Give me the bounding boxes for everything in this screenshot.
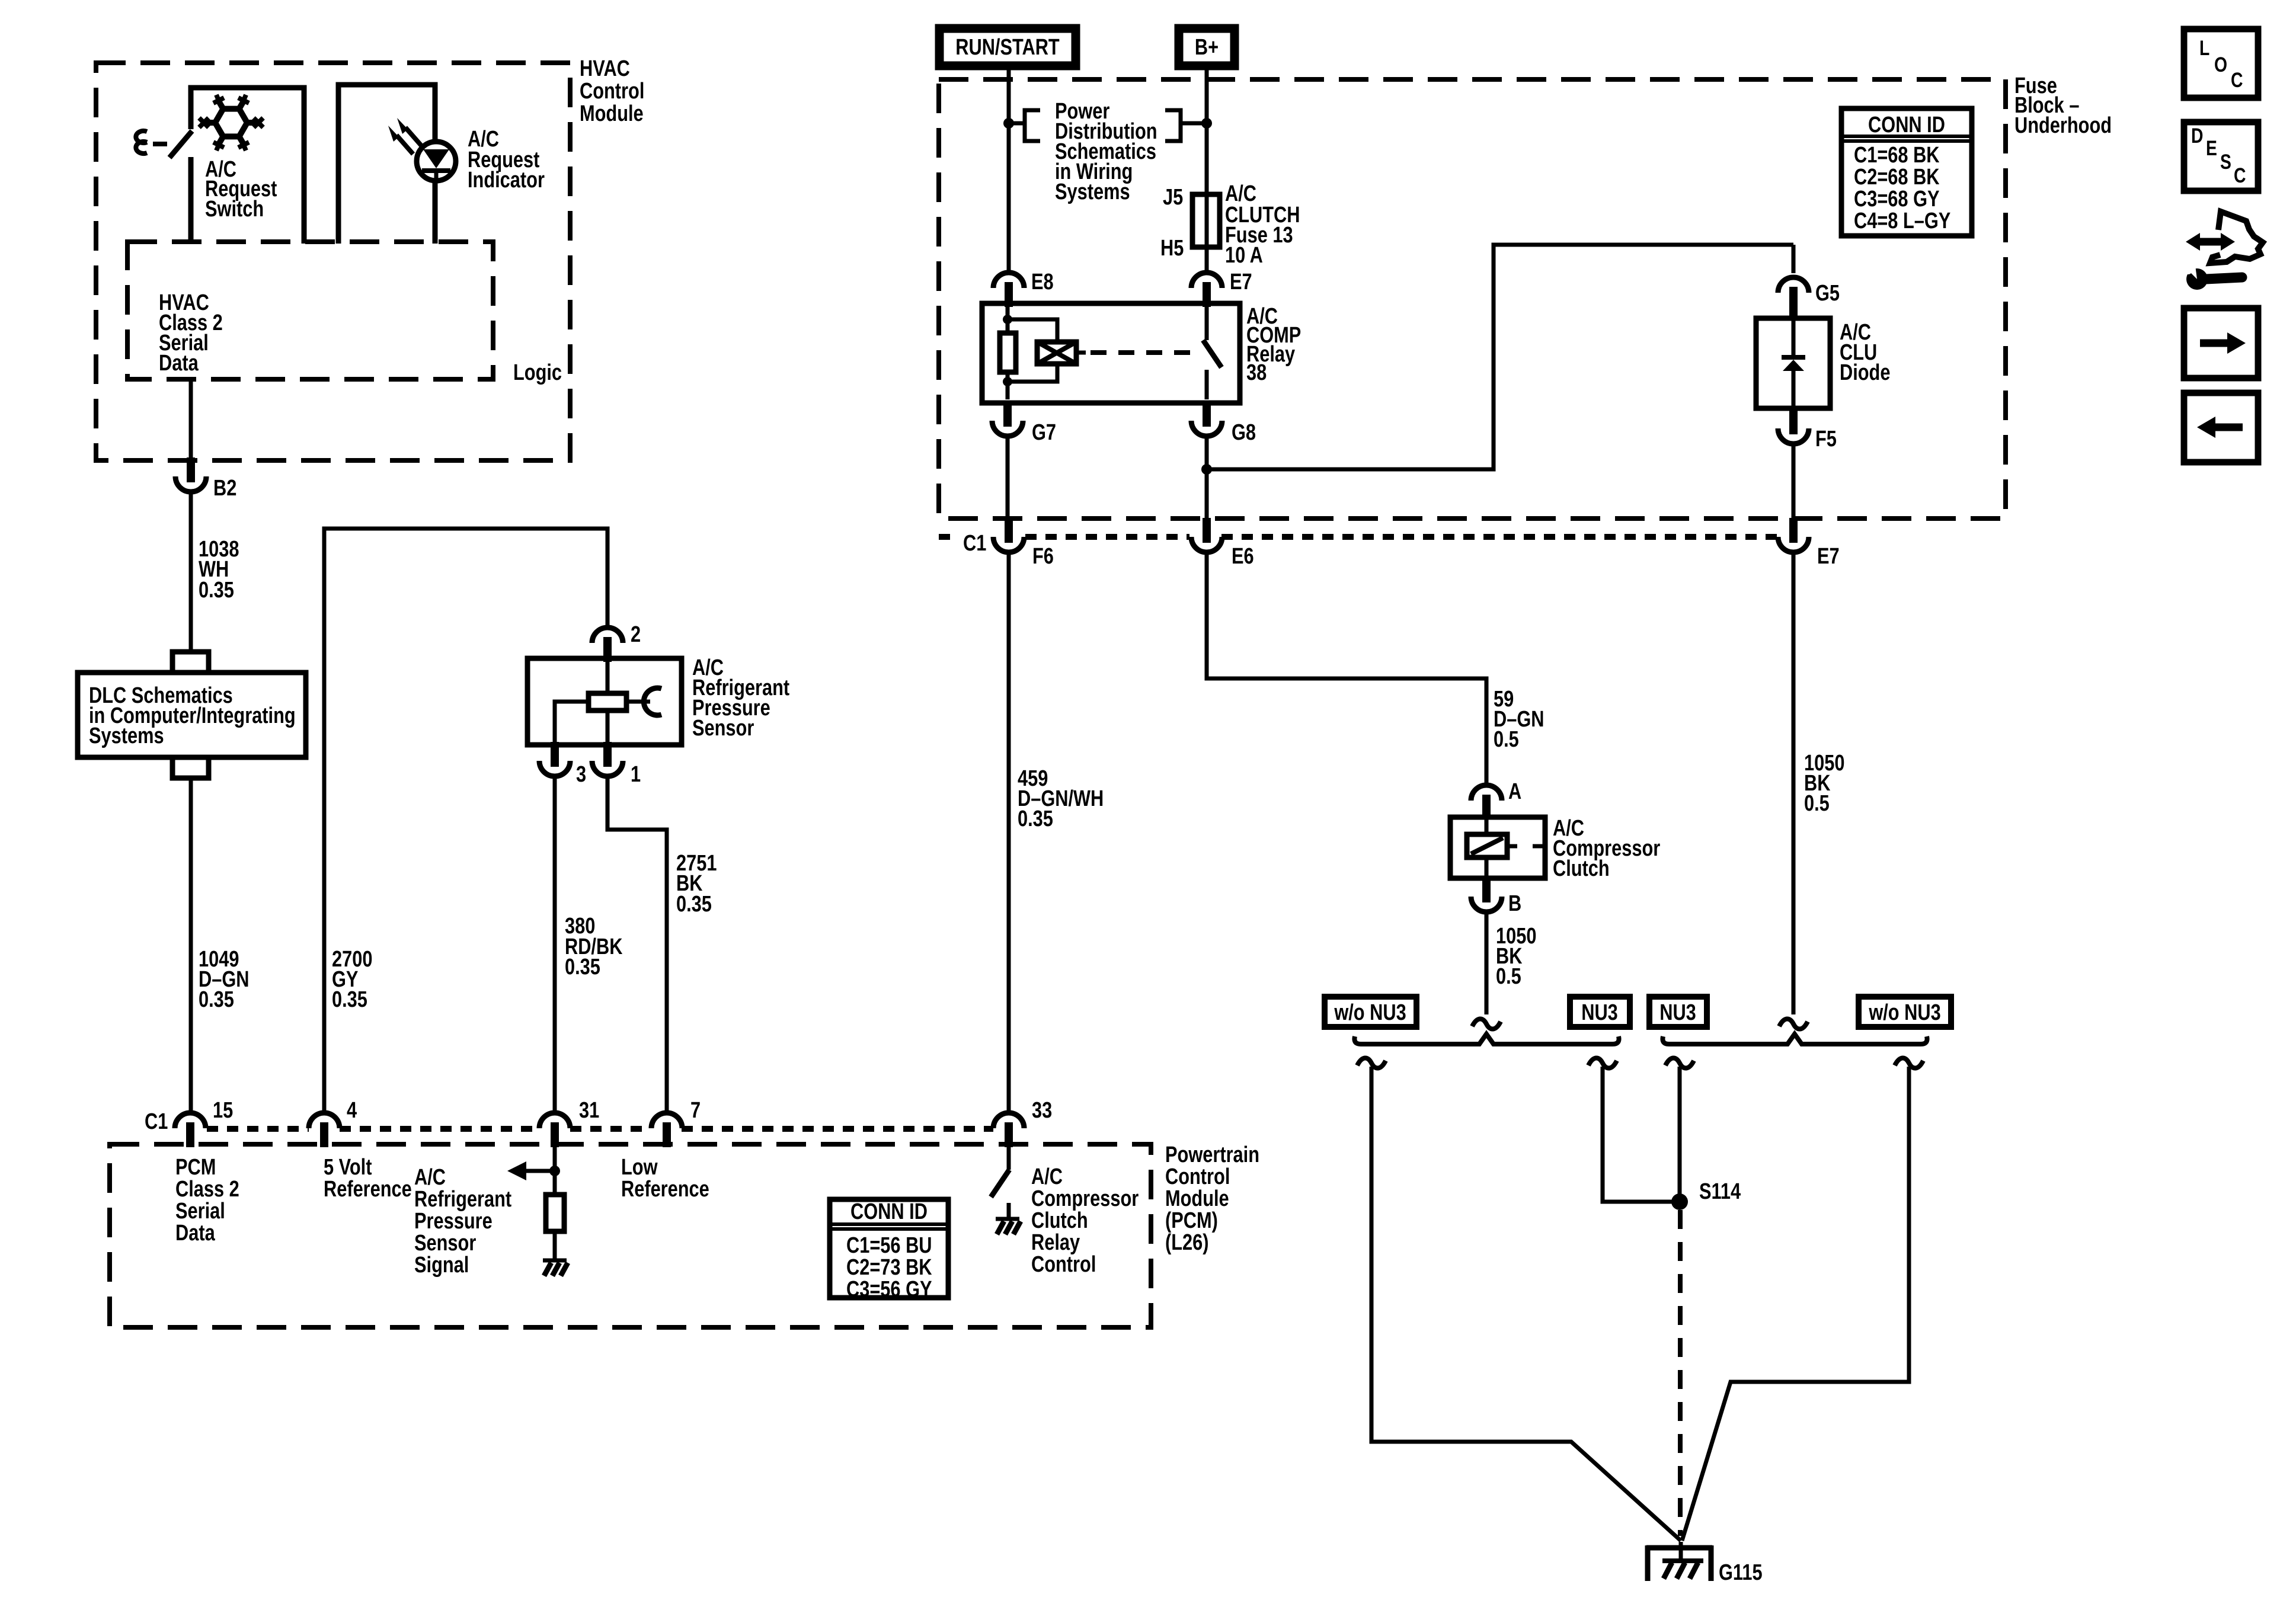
- terminal box RUN/START: [939, 28, 1076, 66]
- wire w/o NU3 left branch: [1371, 1067, 1681, 1541]
- PCM C1 dotted connector row: [207, 1126, 993, 1132]
- icon box arrow left: [2184, 393, 2258, 462]
- svg-text:C4=8 L–GY: C4=8 L–GY: [1854, 209, 1950, 233]
- connector G5: [1778, 277, 1809, 312]
- label A/C Refrigerant Pressure Sensor: [692, 655, 790, 741]
- splice brace (right): [1662, 1034, 1927, 1044]
- svg-text:Signal: Signal: [414, 1253, 469, 1278]
- svg-text:B: B: [1508, 891, 1521, 916]
- svg-text:H5: H5: [1160, 236, 1184, 261]
- switch S (A/C request switch contact and blade): [136, 131, 147, 153]
- connector E7 (bottom row): [1778, 518, 1809, 552]
- relay switch: [1205, 307, 1209, 340]
- connector 1: [592, 742, 623, 776]
- svg-text:10 A: 10 A: [1225, 243, 1263, 268]
- label A/C Compressor Clutch: [1553, 816, 1660, 881]
- option box w/o NU3 (right): [1859, 997, 1951, 1027]
- label 2700 GY 0.35: [332, 947, 372, 1012]
- fuse block C1 dotted connector row: [939, 534, 1779, 540]
- relay coil circuit: [1006, 307, 1010, 399]
- svg-text:L: L: [2199, 36, 2209, 60]
- wire B2 to DLC bracket (1038 WH): [189, 492, 193, 649]
- svg-text:C1: C1: [145, 1109, 168, 1134]
- splice S114: [1671, 1193, 1688, 1210]
- label 59 D-GN 0.5: [1494, 687, 1544, 752]
- node on B+ wire: [1201, 118, 1212, 129]
- dashed wire S114 to G115: [1678, 1210, 1683, 1536]
- label A/C Refrigerant Pressure Sensor Signal: [414, 1165, 512, 1278]
- svg-text:C1=68 BK: C1=68 BK: [1854, 143, 1940, 168]
- svg-text:CONN ID: CONN ID: [1868, 113, 1945, 137]
- svg-text:C1=56 BU: C1=56 BU: [846, 1233, 932, 1258]
- svg-text:HVAC: HVAC: [580, 56, 630, 81]
- svg-text:A: A: [1508, 779, 1521, 804]
- connector 31: [539, 1113, 570, 1147]
- svg-text:S114: S114: [1699, 1179, 1741, 1204]
- svg-text:Switch: Switch: [205, 197, 264, 222]
- svg-text:C1: C1: [963, 531, 986, 556]
- ground (relay control): [996, 1219, 1021, 1234]
- connector G8: [1191, 402, 1222, 436]
- svg-text:C: C: [2231, 68, 2243, 92]
- connector A: [1471, 785, 1502, 820]
- svg-text:F6: F6: [1032, 544, 1054, 569]
- relay dashed actuator link: [1091, 350, 1202, 355]
- svg-text:F5: F5: [1815, 427, 1837, 452]
- icon vehicle with double arrow: [2186, 212, 2263, 263]
- label Power Distribution Schematics in Wiring Systems: [1055, 99, 1157, 204]
- svg-text:0.35: 0.35: [565, 955, 600, 980]
- internal resistor: [546, 1195, 564, 1231]
- connector 2 (sensor pin 2): [592, 628, 623, 662]
- svg-text:A/C: A/C: [414, 1165, 446, 1190]
- wire G8 down with junction to E6: [1205, 436, 1209, 518]
- svg-text:(PCM): (PCM): [1165, 1208, 1218, 1233]
- icon box DESC: [2184, 122, 2258, 191]
- label A/C COMP Relay 38: [1246, 304, 1301, 385]
- label 1049 D-GN 0.35: [199, 947, 249, 1012]
- A/C CLU Diode box: [1756, 318, 1830, 408]
- svg-text:(L26): (L26): [1165, 1230, 1209, 1255]
- connector E7: [1191, 273, 1222, 307]
- svg-text:Control: Control: [580, 79, 644, 104]
- connector E6: [1191, 518, 1222, 552]
- svg-text:Clutch: Clutch: [1553, 856, 1610, 881]
- connector B: [1471, 878, 1502, 912]
- power distribution right bracket: [1165, 110, 1207, 141]
- svg-text:Control: Control: [1031, 1252, 1096, 1277]
- svg-text:Sensor: Sensor: [414, 1231, 476, 1256]
- svg-text:0.35: 0.35: [676, 892, 712, 917]
- DLC top bracket: [172, 652, 209, 673]
- wire E6 to compressor clutch A (59 D-GN): [1207, 552, 1486, 785]
- connector 15: [175, 1113, 206, 1147]
- CONN ID table (PCM): [830, 1199, 948, 1302]
- svg-text:E7: E7: [1817, 544, 1840, 569]
- svg-text:S: S: [2220, 150, 2231, 174]
- DLC Schematics box: [78, 673, 306, 757]
- wire DLC to PCM pin 15 (1049 D-GN): [189, 778, 193, 1112]
- svg-text:0.5: 0.5: [1494, 727, 1519, 752]
- svg-text:31: 31: [579, 1098, 599, 1123]
- svg-text:C3=56 GY: C3=56 GY: [846, 1277, 932, 1302]
- svg-text:Control: Control: [1165, 1164, 1230, 1189]
- wire logic box to B2: [189, 379, 193, 457]
- svg-text:C2=68 BK: C2=68 BK: [1854, 165, 1940, 190]
- squiggle drop NU3 left: [1588, 1058, 1617, 1068]
- wire break squiggle (left wire): [1472, 1019, 1501, 1029]
- Fuse Block - Underhood dashed box: [939, 79, 2006, 518]
- sensor internal right lead and pressure port: [626, 700, 650, 704]
- connector F5: [1778, 409, 1809, 444]
- svg-text:0.35: 0.35: [199, 578, 234, 603]
- label Powertrain Control Module (PCM) (L26): [1165, 1142, 1259, 1255]
- pin31 internal wire and node: [553, 1147, 557, 1195]
- svg-text:CONN ID: CONN ID: [850, 1199, 928, 1224]
- label HVAC Control Module: [580, 56, 644, 126]
- svg-text:0.5: 0.5: [1804, 791, 1830, 816]
- HVAC Control Module dashed box: [96, 63, 570, 460]
- wire 2700 GY horizontal run: [324, 529, 607, 1112]
- snowflake icon: [199, 95, 263, 151]
- label Fuse Block - Underhood: [2014, 73, 2112, 138]
- svg-text:Logic: Logic: [513, 360, 562, 385]
- ground (internal PCM): [543, 1260, 568, 1276]
- squiggle drop w/o NU3 left: [1357, 1058, 1386, 1068]
- connector 4: [309, 1113, 340, 1147]
- A/C Request Switch box: [191, 88, 304, 244]
- power distribution left bracket: [1009, 110, 1040, 141]
- svg-text:3: 3: [576, 762, 586, 787]
- svg-text:Clutch: Clutch: [1031, 1208, 1088, 1233]
- svg-text:E: E: [2206, 136, 2217, 160]
- label A/C Compressor Clutch Relay Control: [1031, 1164, 1139, 1277]
- svg-text:w/o NU3: w/o NU3: [1334, 1000, 1406, 1025]
- svg-text:B2: B2: [213, 476, 236, 501]
- label A/C CLU Diode: [1840, 320, 1890, 385]
- connector 7: [651, 1113, 682, 1147]
- wire B+ down to fuse: [1205, 66, 1209, 196]
- icon box arrow right: [2184, 308, 2258, 378]
- svg-text:Underhood: Underhood: [2014, 113, 2112, 138]
- option box NU3 (right): [1649, 997, 1707, 1027]
- label 1050 BK 0.5 (left): [1496, 924, 1536, 989]
- diode symbol: [1792, 321, 1796, 406]
- svg-text:RUN/START: RUN/START: [955, 35, 1059, 60]
- svg-text:Refrigerant: Refrigerant: [414, 1187, 512, 1212]
- connector G7: [992, 402, 1023, 436]
- wire w/o NU3 right branch: [1682, 1067, 1909, 1541]
- svg-text:C: C: [2234, 164, 2246, 187]
- connector 33: [993, 1113, 1024, 1147]
- connector B2: [175, 457, 206, 492]
- wire 380 RD/BK pin3 to PCM 31: [553, 776, 557, 1112]
- svg-text:Low: Low: [621, 1155, 658, 1180]
- svg-text:0.5: 0.5: [1496, 964, 1521, 989]
- svg-text:Compressor: Compressor: [1031, 1186, 1139, 1211]
- option box w/o NU3 (left): [1325, 997, 1416, 1027]
- svg-text:33: 33: [1032, 1098, 1052, 1123]
- svg-text:C2=73 BK: C2=73 BK: [846, 1255, 932, 1280]
- svg-text:G5: G5: [1815, 281, 1840, 306]
- svg-text:Reference: Reference: [621, 1177, 709, 1202]
- svg-text:Module: Module: [580, 101, 644, 126]
- wire NU3 right branch to S114: [1678, 1067, 1682, 1202]
- svg-text:Data: Data: [159, 351, 199, 376]
- wire junction to A/C CLU diode branch: [1207, 245, 1793, 469]
- svg-text:15: 15: [213, 1098, 233, 1123]
- connector 3: [539, 742, 570, 776]
- terminal box B+: [1179, 28, 1235, 66]
- svg-text:Serial: Serial: [175, 1199, 225, 1224]
- LED A/C request indicator: [388, 118, 456, 181]
- label 1038 WH 0.35: [199, 537, 239, 603]
- svg-text:Systems: Systems: [89, 724, 164, 748]
- relay coil loop and solenoid: [1008, 319, 1057, 382]
- wire down to G5: [1792, 245, 1796, 273]
- HVAC Class 2 Serial Data logic dashed box: [127, 242, 493, 379]
- wire RUN/START down to E8: [1007, 66, 1011, 271]
- CONN ID table (fuse block): [1841, 108, 1972, 236]
- label DLC Schematics in Computer/Integrating Systems: [89, 683, 296, 748]
- sensor internal left lead to pin 3: [555, 702, 589, 745]
- svg-text:Relay: Relay: [1031, 1230, 1080, 1255]
- wire break squiggle (right wire): [1779, 1019, 1808, 1029]
- svg-text:0.35: 0.35: [332, 987, 367, 1012]
- icon wrench: [2181, 261, 2242, 290]
- svg-text:G8: G8: [1232, 420, 1256, 445]
- svg-text:4: 4: [347, 1098, 357, 1123]
- squiggle drop NU3 right: [1665, 1058, 1694, 1068]
- wire G7 to F6: [1006, 436, 1010, 518]
- signal arrow (A/C refrigerant pressure sensor signal): [525, 1169, 555, 1173]
- svg-text:B+: B+: [1195, 35, 1219, 60]
- label 5 Volt Reference: [324, 1155, 412, 1202]
- svg-text:2: 2: [631, 622, 641, 647]
- squiggle drop w/o NU3 right: [1895, 1058, 1923, 1068]
- svg-text:Pressure: Pressure: [414, 1209, 493, 1234]
- label A/C CLUTCH Fuse 13 10 A: [1225, 181, 1300, 268]
- svg-text:Class 2: Class 2: [175, 1177, 239, 1202]
- svg-text:1: 1: [631, 762, 641, 787]
- solenoid bowtie: [1037, 342, 1076, 364]
- label 459 D-GN/WH 0.35: [1018, 766, 1104, 831]
- svg-text:PCM: PCM: [175, 1155, 216, 1180]
- svg-text:NU3: NU3: [1581, 1000, 1618, 1025]
- svg-text:Module: Module: [1165, 1186, 1229, 1211]
- clutch coil: [1485, 820, 1489, 876]
- svg-text:J5: J5: [1163, 185, 1183, 210]
- wire F6 to PCM 33 (459 D-GN/WH): [1007, 552, 1011, 1112]
- A/C Refrigerant Pressure Sensor box: [527, 658, 682, 745]
- svg-text:Indicator: Indicator: [468, 168, 545, 193]
- svg-text:C3=68 GY: C3=68 GY: [1854, 187, 1940, 212]
- label A/C Request Indicator: [468, 127, 545, 193]
- sensor internal resistor: [606, 658, 610, 693]
- svg-text:G115: G115: [1719, 1560, 1763, 1585]
- svg-text:38: 38: [1246, 360, 1267, 385]
- svg-text:A/C: A/C: [1031, 1164, 1063, 1189]
- svg-text:D: D: [2191, 124, 2203, 148]
- svg-text:O: O: [2214, 53, 2227, 76]
- svg-text:Diode: Diode: [1840, 360, 1890, 385]
- A/C Compressor Clutch box: [1450, 817, 1545, 878]
- svg-text:Sensor: Sensor: [692, 716, 754, 741]
- svg-text:5 Volt: 5 Volt: [324, 1155, 372, 1180]
- svg-text:Powertrain: Powertrain: [1165, 1142, 1259, 1167]
- wire NU3 left branch to S114: [1603, 1067, 1680, 1202]
- svg-text:G7: G7: [1032, 420, 1056, 445]
- splice brace (left): [1354, 1034, 1619, 1044]
- fuse 13 A/C CLUTCH: [1192, 194, 1220, 247]
- svg-text:7: 7: [690, 1098, 701, 1123]
- svg-text:NU3: NU3: [1659, 1000, 1696, 1025]
- svg-text:Data: Data: [175, 1221, 215, 1246]
- DLC bottom bracket: [172, 757, 209, 778]
- connector E8: [993, 273, 1024, 307]
- label PCM Class 2 Serial Data: [175, 1155, 239, 1246]
- A/C Request Indicator box: [338, 85, 435, 244]
- option box NU3 (left): [1570, 997, 1630, 1027]
- label 1050 BK 0.5 (right): [1804, 751, 1844, 816]
- label 2751 BK 0.35: [676, 851, 717, 917]
- svg-text:E7: E7: [1230, 270, 1252, 295]
- svg-text:w/o NU3: w/o NU3: [1868, 1000, 1940, 1025]
- label Low Reference: [621, 1155, 709, 1202]
- wire E7 down (1050 BK right): [1792, 552, 1796, 1014]
- node on RUN/START wire: [1003, 118, 1014, 129]
- label 380 RD/BK 0.35: [565, 914, 622, 980]
- PCM dashed box: [110, 1144, 1151, 1327]
- pin33 internal switch (A/C compressor clutch relay control): [1007, 1147, 1011, 1170]
- connector F6: [993, 518, 1024, 552]
- wire 2751 BK pin1 to PCM 7: [607, 776, 667, 1112]
- svg-text:0.35: 0.35: [199, 987, 234, 1012]
- clutch mechanical link: [1507, 844, 1545, 849]
- label A/C Request Switch: [205, 157, 277, 222]
- svg-text:E8: E8: [1031, 270, 1054, 295]
- wire F5 down to E7: [1792, 444, 1796, 518]
- icon box LOC: [2184, 29, 2258, 98]
- label HVAC Class 2 Serial Data: [159, 290, 223, 376]
- wire B down (1050 BK): [1485, 912, 1489, 1014]
- svg-text:Reference: Reference: [324, 1177, 412, 1202]
- svg-text:E6: E6: [1232, 544, 1254, 569]
- svg-text:Systems: Systems: [1055, 180, 1130, 204]
- svg-text:0.35: 0.35: [1018, 806, 1053, 831]
- A/C COMP Relay box: [982, 303, 1240, 403]
- ground G115: [1646, 1542, 1712, 1581]
